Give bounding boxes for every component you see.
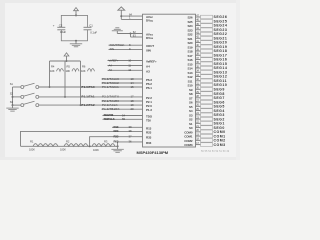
switch S2 designator [10,92,14,96]
resistor R6 pull-up 10K [81,61,95,105]
svg-text:R23: R23 [146,130,152,134]
pin number 42 [196,36,199,39]
wire COM3 pin stub [196,144,201,146]
IC pin label P2.1 (inside left) [146,100,152,104]
wire S12 pin stub [196,76,201,78]
IC pin label S12 (inside right) [187,75,192,79]
wire S13 pin stub [196,71,201,73]
port box COM2 [201,139,213,143]
node pin name P2.1/TA1RX [102,99,119,103]
wire COM2 pin stub [196,139,201,141]
IC pin label S17 (inside right) [187,54,192,58]
resistor R4 pull-up 10K [50,61,64,87]
IC pin label R23 (inside left) [146,130,152,134]
IC pin label A3 (inside left) [146,69,150,73]
wire S10 pin stub [196,84,201,86]
capacitor C1 value 0.1uF [90,31,97,35]
wire S19 pin stub [196,46,201,48]
node net label SEG16 [214,58,228,62]
node net label COM0 [214,130,226,134]
port box SEG17 [201,53,213,57]
port box SEG21 [201,36,213,40]
node net label SEG23 [214,28,228,32]
capacitor C2 designator [59,23,63,27]
node pin name P1.3/TB1RX [102,107,120,111]
IC pin label P1.3 (inside left) [146,108,152,112]
capacitor C2 value 10uF [60,30,66,34]
ground symbol (supply return) [112,28,123,34]
port box SEG7 [201,96,213,100]
wire tap to R33 row [90,137,143,147]
port box SEG9 [201,88,213,92]
pin number 27 [196,99,199,102]
svg-text:COM3: COM3 [184,143,193,147]
node net label XIN [110,47,114,51]
IC pin label AVss (inside left) [146,33,153,37]
node net label SEG5 [214,105,225,109]
wire DVss pin row [131,36,143,38]
svg-text:100K: 100K [93,148,99,152]
node R6 joins row [80,104,82,106]
IC pin label S22 (inside right) [187,33,192,37]
port box SEG16 [201,58,213,62]
wire R23 top return [21,131,143,146]
svg-text:VeREF+: VeREF+ [109,58,119,62]
IC pin label S9 (inside right) [189,88,193,92]
IC pin label AVcc (inside left) [146,15,153,19]
node net label SEG24 [214,24,228,28]
wire S1 pin stub [196,122,201,124]
pin number 44 [196,27,199,30]
pin number 28 [196,95,199,98]
node net label SEG9 [214,88,225,92]
node net label A3 [109,68,113,72]
wire switch common bus [12,87,14,105]
port box SEG13 [201,70,213,74]
svg-text:R33: R33 [146,136,152,140]
pin number 38 [196,53,199,56]
wire AVcc pin row [121,15,142,17]
port box SEG4 [201,109,213,113]
wire S17 pin stub [196,54,201,56]
svg-text:R03: R03 [114,140,119,144]
wire pin row y101.0 [102,100,143,102]
pin number 34 [196,70,199,73]
node net label SEG18 [214,49,228,53]
svg-text:R23: R23 [114,129,119,133]
pin number 17 [131,95,134,99]
node net label SEG0 [214,126,225,130]
svg-text:100K: 100K [29,148,35,152]
wire XOUT pin row [109,44,143,46]
IC pin label S16 (inside right) [187,58,192,62]
wire switch net row y105.1 [39,104,143,106]
svg-text:A4: A4 [146,65,150,69]
IC pin label S25 (inside right) [187,20,192,24]
node net label SEG8 [214,92,225,96]
node net label R23 [114,129,119,133]
wire S21 pin stub [196,37,201,39]
port box SEG15 [201,62,213,66]
pin number 18 [196,138,199,141]
pin number 11 [128,63,131,67]
wire S7 pin stub [196,97,201,99]
IC pin label R13 (inside left) [146,126,152,130]
svg-text:P1.2/TA2: P1.2/TA2 [82,103,95,107]
pin number 62 AVss [133,30,136,34]
svg-text:TDI: TDI [146,118,151,122]
node bus S3 tap [12,104,14,106]
svg-text:VeREF+: VeREF+ [146,60,157,64]
IC pin label TDI (inside left) [146,118,151,122]
svg-text:P6.1: P6.1 [146,86,152,90]
IC pin label S4 (inside right) [189,109,193,113]
IC pin label R33 (inside left) [146,136,152,140]
port box SEG22 [201,32,213,36]
port box SEG26 [201,15,213,19]
wire decoupling loop rectangle [61,15,87,40]
pin number 26 [196,104,199,107]
svg-text:MSP430F413IPM: MSP430F413IPM [137,150,169,155]
port box COM1 [201,134,213,138]
wire S11 pin stub [196,80,201,82]
svg-text:10uF: 10uF [60,30,66,34]
node net label SEG26 [214,15,228,19]
node pin name P6.1/TA2A1 [102,85,119,89]
pin number 1 DVcc [129,16,131,20]
wire end riser to R03 row [118,142,143,146]
IC pin label DVss (inside left) [146,36,154,40]
pin number 20 [131,107,134,111]
node VCC junction top of loop [75,14,77,16]
power symbol VCC (supply pins) [118,7,125,20]
resistor R5 pull-up 10K [65,61,79,97]
svg-text:10K: 10K [66,69,71,73]
ground symbol ladder [111,146,123,152]
wire S22 pin stub [196,33,201,35]
wire COM1 pin stub [196,135,201,137]
node net label VeREF+ [109,58,119,62]
svg-text:P1.3: P1.3 [146,108,152,112]
node net label SEG20 [214,41,228,45]
wire S16 pin stub [196,59,201,61]
pin number 40 [196,44,199,47]
resistor R1 ladder 100K [29,140,58,152]
svg-text:A4: A4 [109,63,113,67]
IC pin label S18 (inside right) [187,50,192,54]
svg-text:0.1uF: 0.1uF [90,31,97,35]
node pin name P2.0/ACLK [102,103,118,107]
pin number 13 [131,77,134,81]
pin number 47 [196,14,199,17]
node net label TDO/TDI [104,113,114,117]
IC pin label P2.2 (inside left) [146,96,152,100]
pin number 54 [122,113,125,117]
node R4 joins row [49,86,51,88]
port box SEG14 [201,66,213,70]
wire switch net row y87.0 [39,86,143,88]
wire XIN pin row [109,48,143,50]
node net label SEG6 [214,100,225,104]
svg-text:100K: 100K [60,148,66,152]
IC pin label S23 (inside right) [187,28,192,32]
wire S9 pin stub [196,88,201,90]
port box SEG2 [201,117,213,121]
port box SEG6 [201,100,213,104]
port box SEG3 [201,113,213,117]
IC pin label COM2 (inside right) [184,139,193,143]
port box SEG8 [201,92,213,96]
node net label P1.0/TA0 [82,85,95,89]
node net label SEG1 [214,122,225,126]
svg-text:C1: C1 [89,23,93,27]
svg-text:P6.1/TA2A1: P6.1/TA2A1 [102,85,119,89]
wire S8 pin stub [196,93,201,95]
IC pin label S13 (inside right) [187,71,192,75]
port box SEG12 [201,75,213,79]
port box SEG10 [201,83,213,87]
port box SEG5 [201,105,213,109]
svg-text:DVcc: DVcc [146,18,154,22]
wire S20 pin stub [196,42,201,44]
IC pin label S20 (inside right) [187,41,192,45]
port box SEG18 [201,49,213,53]
pin number 37 [196,57,199,60]
node net label SEG22 [214,32,228,36]
wire switch net row y96.9 [39,96,143,98]
node net label SEG14 [214,66,228,70]
IC pin label S1 (inside right) [189,122,193,126]
IC pin label VeREF+ (inside left) [146,60,157,64]
pin number 35 [196,65,199,68]
pin number 39 [196,48,199,51]
IC part number MSP430F413 [137,150,169,155]
node net label R03 [114,140,119,144]
node net label COM2 [214,139,226,143]
port box COM0 [201,130,213,134]
node net label R13 [114,125,119,129]
pin number 22 [196,121,199,124]
wire S24 pin stub [196,25,201,27]
svg-text:COM3: COM3 [214,143,226,147]
pin number 32 [196,78,199,81]
IC pin label COM1 (inside right) [184,135,193,139]
wire A4 pin row [108,65,143,67]
wire COM0 pin stub [196,131,201,133]
IC pin label S19 (inside right) [187,45,192,49]
node net label SEG21 [214,36,228,40]
node ladder end junction [117,145,119,147]
pin number 55 [122,117,125,121]
node net label SEG17 [214,53,228,57]
pin number 14 [131,81,134,85]
node pin name P2.2/TA0TX [102,95,119,99]
IC pin label P6.3 (inside left) [146,78,152,82]
node net label SEG7 [214,96,225,100]
pin number 20 [196,129,199,132]
wire ground to AVss row [117,33,142,35]
node pin name P6.3/TA1A3 [102,77,119,81]
node net label COM3 [214,143,226,147]
wire S26 pin stub [196,16,201,18]
wire S6 pin stub [196,101,201,103]
ground symbol under switch bus [6,105,18,111]
switch S1 [13,83,39,88]
IC pin label S6 (inside right) [189,101,193,105]
port box SEG20 [201,41,213,45]
node net label SEG2 [214,117,225,121]
faint title block text bottom right [201,150,230,153]
node net label SEG4 [214,109,225,113]
node VCC branch junction [120,15,122,17]
wire S3 pin stub [196,114,201,116]
pin number 19 [196,133,199,136]
IC pin label S26 (inside right) [187,16,192,20]
pin number 25 [196,108,199,111]
node ladder tap R33 [89,145,91,147]
port box SEG23 [201,28,213,32]
IC pin label S7 (inside right) [189,96,193,100]
wire Vss vertical [130,34,132,38]
pin number 46 [196,19,199,22]
IC pin label P2.0 (inside left) [146,104,152,108]
node net label SEG3 [214,113,225,117]
IC pin label P6.1 (inside left) [146,86,152,90]
node net label SEG15 [214,62,228,66]
power symbol VCC (pull-up bank) [64,53,69,61]
wire S15 pin stub [196,63,201,65]
node net label COM1 [214,134,226,138]
pin number 23 [196,116,199,119]
node VCC rail junction [66,60,68,62]
pin number 18 [131,99,134,103]
pin number 12 [128,68,131,72]
wire S14 pin stub [196,67,201,69]
wire S25 pin stub [196,20,201,22]
node net label A4 [109,63,113,67]
pin number 29 [196,91,199,94]
pin number 63 DVss [133,33,136,37]
IC pin label S10 (inside right) [187,84,192,88]
wire ladder baseline [21,145,118,147]
pin number 43 [196,31,199,34]
pin number 36 [196,61,199,64]
IC pin label S14 (inside right) [187,67,192,71]
node net label SEG12 [214,75,228,79]
pin number 30 [196,87,199,90]
capacitor C2 plus sign [53,24,55,28]
node net label P1.2/TA2 [82,103,95,107]
svg-text:DVss: DVss [146,36,154,40]
svg-text:P1.0/TA0: P1.0/TA0 [82,85,95,89]
IC pin label COM3 (inside right) [184,143,193,147]
IC pin label S15 (inside right) [187,62,192,66]
pin number 64 AVcc [129,12,132,16]
port box SEG1 [201,122,213,126]
node R5 joins row [64,96,66,98]
pin number 15 [131,85,134,89]
capacitor C2 plates (polarized 10uF) [57,27,65,30]
svg-text:TDO/TDI: TDO/TDI [104,113,114,117]
pin number 41 [196,40,199,43]
IC pin label R03 (inside left) [146,141,152,145]
power symbol VCC (top of decoupling loop) [74,8,79,16]
IC pin label S3 (inside right) [189,113,193,117]
IC pin label S0 (inside right) [189,126,193,130]
wire S4 pin stub [196,110,201,112]
pin number 31 [196,82,199,85]
IC pin label DVcc (inside left) [146,18,154,22]
pin number 21 [196,125,199,128]
IC pin label S11 (inside right) [188,79,193,83]
svg-text:10K: 10K [50,69,55,73]
svg-text:P1.1/TA1: P1.1/TA1 [82,95,95,99]
pin number 38 [129,129,132,133]
pin number 33 [196,74,199,77]
svg-text:TDI/TCLK: TDI/TCLK [104,117,115,121]
node net label XOUT [110,43,125,47]
wire TDO/TDI pin row [103,115,143,117]
node bus S2 tap [12,96,14,98]
wire pin row y79.0 [102,78,143,80]
pin number 45 [196,23,199,26]
svg-text:C2: C2 [59,23,63,27]
capacitor C1 designator [89,23,93,27]
svg-text:56 55 54 53 52 51 50 49: 56 55 54 53 52 51 50 49 [201,150,230,153]
pin number 9 [129,47,131,51]
wire VeREF+ pin row [108,60,143,62]
wire DVcc pin row [121,18,142,20]
switch S3 designator [10,100,14,104]
wire S5 pin stub [196,105,201,107]
node net label SEG10 [214,83,228,87]
pin number 24 [196,112,199,115]
pin number 36 [129,140,132,144]
wire pin row y109.2 [102,108,143,110]
node net label P1.1/TA1 [82,95,95,99]
wire S23 pin stub [196,29,201,31]
svg-text:P1.3/TB1RX: P1.3/TB1RX [102,107,120,111]
IC pin label S24 (inside right) [187,24,192,28]
node pin name P6.2/TA0A2 [102,81,119,85]
capacitor C1 plates (0.1uF) [84,27,92,30]
IC pin label S2 (inside right) [189,118,193,122]
svg-text:XIN: XIN [110,47,114,51]
wire S18 pin stub [196,50,201,52]
port box SEG19 [201,45,213,49]
node net label SEG11 [214,79,228,83]
svg-text:XIN: XIN [146,48,151,52]
port box COM3 [201,143,213,147]
svg-text:10K: 10K [81,69,86,73]
pin number 17 [196,142,199,145]
IC pin label A4 (inside left) [146,65,150,69]
pin number 19 [131,103,134,107]
ground symbol under decoupling loop [70,41,82,47]
IC pin label S8 (inside right) [189,92,193,96]
switch S1 designator [10,82,14,86]
IC pin label P6.2 (inside left) [146,82,152,86]
node Vss junction [130,33,132,35]
wire pin row y83.0 [102,82,143,84]
IC U1 MSP430F413 body [143,14,196,147]
IC pin label S21 (inside right) [187,37,192,41]
wire TDI/TCLK pin row [103,118,143,120]
IC pin label XIN (inside left) [146,48,151,52]
pin number 10 [128,58,131,62]
wire S0 pin stub [196,127,201,129]
pin number 8 [129,43,131,47]
